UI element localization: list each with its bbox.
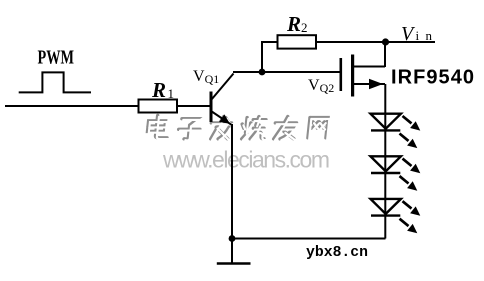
svg-text:ybx8.cn: ybx8.cn	[306, 244, 368, 261]
svg-text:R2: R2	[286, 12, 308, 36]
svg-text:in: in	[416, 28, 433, 43]
svg-text:VQ2: VQ2	[308, 77, 334, 95]
svg-text:PWM: PWM	[38, 47, 75, 69]
svg-text:R1: R1	[151, 78, 174, 102]
svg-text:VQ1: VQ1	[193, 68, 219, 86]
svg-text:www.elecians.com: www.elecians.com	[162, 147, 330, 173]
svg-text:IRF9540: IRF9540	[391, 67, 474, 89]
